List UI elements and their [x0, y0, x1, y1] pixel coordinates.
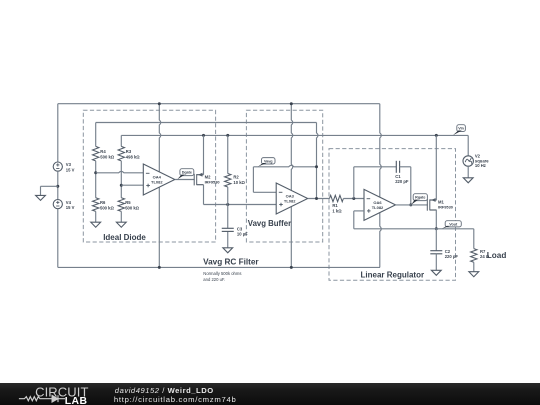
transistor M2 IRF9530	[193, 174, 195, 186]
wire R3 top lead	[120, 135, 122, 146]
capacitor C1	[395, 161, 397, 173]
ground supply midpoint	[36, 195, 46, 200]
capacitor C2	[430, 250, 442, 252]
net flag Dgate	[180, 169, 194, 176]
ground below R5	[116, 222, 126, 227]
voltage source V3	[53, 162, 62, 171]
node C1/output junction	[409, 203, 412, 206]
wire OA6 supply vertical	[380, 104, 382, 268]
op-amp OA3 TL082	[276, 183, 308, 214]
resistor R1	[330, 195, 344, 201]
svg-text:500 kΩ: 500 kΩ	[100, 155, 114, 160]
footer text	[115, 386, 214, 395]
wire Vin to V2	[467, 135, 469, 155]
wire Vin rail	[121, 134, 468, 136]
svg-text:15 V: 15 V	[66, 167, 75, 172]
wire Vavg feedback upper run	[96, 122, 317, 124]
svg-text:220 pF: 220 pF	[395, 179, 409, 184]
wire feedback vertical to OA3 output	[317, 123, 319, 199]
svg-text:Rgate: Rgate	[415, 196, 425, 200]
wire M1 drain to Vout	[435, 210, 437, 229]
capacitor C3	[222, 227, 234, 229]
svg-text:R6: R6	[100, 200, 106, 205]
svg-text:1 kΩ: 1 kΩ	[332, 209, 342, 214]
svg-text:R4: R4	[100, 149, 106, 154]
net flag Vavg	[262, 158, 276, 164]
wire C2 bottom lead	[435, 254, 437, 270]
node V3/V4 midpoint junction	[56, 185, 59, 188]
wire to OA4 non-inverting input	[121, 184, 143, 186]
wire OA4 supply vertical	[159, 104, 161, 268]
wire Vout corner to R7	[473, 229, 475, 249]
wire OA6 non-inverting loop	[354, 210, 364, 212]
svg-text:R2: R2	[233, 175, 239, 180]
wire Vavg to OA3 inverting input	[252, 167, 254, 193]
Ideal Diode section box	[83, 110, 215, 242]
svg-text:IRF9530: IRF9530	[205, 179, 220, 184]
wire R6 bottom lead	[95, 211, 97, 222]
wire R7 bottom lead	[473, 262, 475, 271]
wire C3 bottom lead	[227, 231, 229, 247]
svg-text:Normally 500k ohms: Normally 500k ohms	[203, 271, 241, 276]
voltage source V2 square	[463, 156, 473, 166]
ground below V2	[463, 178, 473, 183]
net flag Rgate	[413, 194, 427, 201]
node Vavg feedback junctions	[315, 165, 318, 168]
resistor R7	[471, 249, 477, 263]
svg-text:10 kΩ: 10 kΩ	[233, 180, 245, 185]
wire to C1	[353, 167, 355, 199]
svg-text:TL082: TL082	[372, 205, 384, 210]
ground below R7	[469, 272, 479, 277]
wire R1 to OA6 inverting input	[343, 198, 364, 200]
Vavg Buffer section box	[246, 110, 322, 242]
op-amp OA6 TL082	[364, 189, 396, 220]
svg-text:Vin: Vin	[458, 127, 464, 131]
svg-text:TL082: TL082	[151, 179, 163, 184]
wire to supply ground	[41, 185, 58, 187]
svg-text:and 220 uF.: and 220 uF.	[203, 277, 225, 282]
ground below C3	[223, 248, 233, 253]
wire top rail	[58, 103, 380, 105]
CircuitLab logo	[18, 384, 93, 405]
wire C2 top lead	[435, 229, 437, 251]
svg-text:498 kΩ: 498 kΩ	[126, 155, 140, 160]
wire C1 to OA6 output	[400, 166, 411, 168]
wire R2 bottom lead	[227, 187, 229, 228]
svg-text:Vavg: Vavg	[264, 159, 273, 163]
resistor R2	[225, 174, 231, 188]
node OA3 supply taps	[290, 102, 293, 105]
wire R3-R5	[120, 161, 122, 198]
svg-text:Dgate: Dgate	[182, 171, 192, 175]
wire R4 top lead	[95, 123, 97, 147]
svg-text:500 kΩ: 500 kΩ	[100, 206, 114, 211]
wire OA3 supply vertical	[291, 104, 293, 268]
svg-text:10 µF: 10 µF	[237, 231, 248, 236]
svg-text:LAB: LAB	[65, 396, 88, 405]
node Vout junction	[435, 227, 438, 230]
voltage source V4	[53, 200, 62, 209]
net flag Vout	[445, 221, 461, 227]
wire bottom rail	[58, 266, 380, 268]
ground below R6	[91, 222, 101, 227]
svg-text:220 pF: 220 pF	[445, 254, 459, 259]
node Vin rail junctions	[202, 134, 205, 137]
resistor R5	[118, 198, 124, 212]
svg-text:Load: Load	[487, 251, 507, 260]
node R3/R5 tap	[120, 184, 123, 187]
svg-text:Vout: Vout	[449, 222, 458, 226]
svg-text:R5: R5	[125, 200, 131, 205]
op-amp OA4 TL082	[143, 164, 175, 195]
svg-text:IRF9530: IRF9530	[438, 205, 453, 210]
wire V2 bottom lead	[467, 166, 469, 178]
resistor R4	[93, 146, 99, 161]
svg-text:15 V: 15 V	[66, 205, 75, 210]
svg-text:Vavg RC Filter: Vavg RC Filter	[203, 257, 259, 266]
wire M1 source to Vin rail	[435, 135, 437, 200]
svg-text:Linear Regulator: Linear Regulator	[361, 270, 425, 279]
wire R5 bottom lead	[120, 211, 122, 222]
wire Vout run	[354, 228, 474, 230]
svg-text:Vavg Buffer: Vavg Buffer	[248, 219, 291, 228]
net flag Vin	[457, 125, 466, 132]
wire M2 drain down	[203, 185, 205, 205]
wire Vavg node	[253, 165, 316, 167]
wire M2 source to Vin rail	[203, 135, 205, 174]
node OA4 supply taps	[158, 102, 161, 105]
svg-text:500 kΩ: 500 kΩ	[125, 206, 139, 211]
wire OA6 output to M1 gate	[396, 204, 428, 206]
wire V3-V4	[57, 171, 59, 199]
wire OA3 output	[308, 198, 330, 200]
svg-text:R3: R3	[126, 149, 132, 154]
resistor R3	[118, 146, 124, 161]
wire to OA4 inverting input	[96, 171, 144, 173]
transistor M1 IRF9530	[426, 199, 428, 211]
wire V3 top	[57, 104, 59, 162]
footer bar	[0, 383, 540, 405]
Linear Regulator section box	[329, 149, 456, 281]
wire R4-R6	[95, 161, 97, 198]
ground below C2	[431, 270, 441, 275]
wire OA4 output to M2 gate	[175, 179, 195, 181]
wire V4 bottom to rail	[57, 209, 59, 268]
node RC filter junction	[226, 203, 229, 206]
wire R2 top lead	[227, 135, 229, 173]
node OA6 feedback tap	[352, 197, 355, 200]
svg-text:Ideal Diode: Ideal Diode	[103, 233, 146, 242]
wire M2 drain to OA3 +	[228, 204, 276, 206]
svg-text:TL082: TL082	[284, 198, 296, 203]
node R4/R6 tap	[94, 171, 97, 174]
resistor R6	[93, 198, 99, 212]
svg-text:10 Hz: 10 Hz	[475, 163, 486, 168]
svg-text:R1: R1	[332, 203, 338, 208]
